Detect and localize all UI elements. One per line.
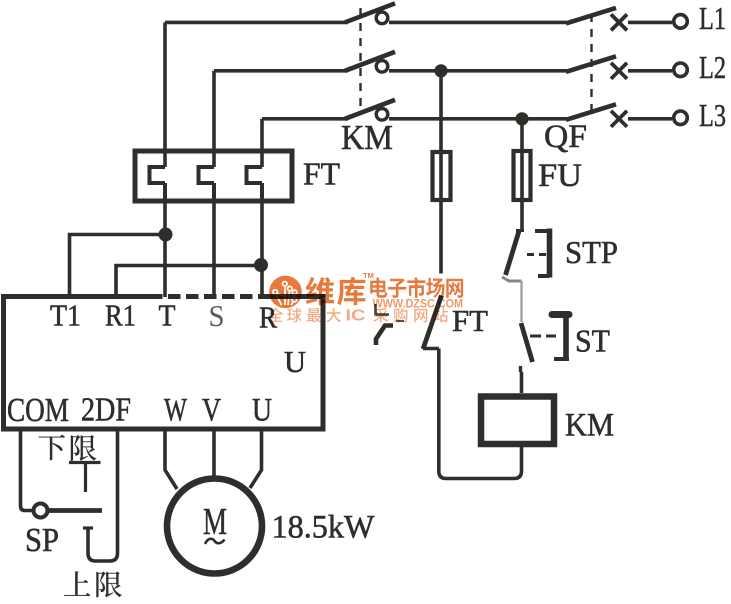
svg-text:S: S	[209, 298, 225, 333]
pushbutton ST cap bracket	[563, 318, 569, 360]
svg-text:R1: R1	[105, 298, 136, 333]
fuse FU 2 body	[514, 151, 531, 200]
svg-text:18.5kW: 18.5kW	[272, 510, 376, 546]
wire L1 horizontal left segment	[165, 21, 348, 25]
thermal relay FT box	[135, 151, 292, 201]
wire L3 junction down to fuse	[520, 119, 524, 151]
contactor KM pole 2 hinge	[376, 61, 388, 73]
svg-text:SP: SP	[25, 522, 59, 559]
svg-text:V: V	[202, 393, 221, 429]
terminal circle L3	[674, 111, 688, 125]
node junction on L3	[515, 112, 528, 125]
inverter U box top edge solid-right	[268, 294, 323, 299]
wire phase3 FT to inverter R	[260, 201, 264, 297]
motor M circle	[167, 479, 262, 574]
contactor KM pole 3 blade	[345, 100, 395, 119]
wire phase2 FT to inverter S	[212, 201, 216, 297]
wire L1 middle segment	[389, 21, 567, 25]
svg-text:FT: FT	[303, 156, 340, 192]
node junction on phase3	[254, 258, 268, 272]
pushbutton ST lower stub	[519, 366, 522, 372]
thermal relay FT heater element	[150, 167, 166, 203]
wire phase1 FT to inverter T	[163, 201, 167, 297]
label upper-limit (Chinese)	[64, 571, 90, 596]
svg-text:FU: FU	[538, 158, 582, 194]
wire L2 right segment	[628, 69, 672, 73]
svg-text:TM: TM	[363, 271, 374, 280]
wire L2 horizontal left segment	[214, 69, 348, 73]
watermark site name chars	[370, 278, 387, 298]
wire L3 horizontal left segment	[262, 117, 348, 121]
contactor KM pole 2 blade	[345, 52, 395, 71]
wire COM down to SP	[21, 429, 33, 511]
svg-text:IC: IC	[346, 308, 366, 325]
breaker QF pole 1 X mark	[611, 14, 627, 30]
svg-text:KM: KM	[565, 408, 614, 444]
wire L3 middle segment	[389, 117, 567, 121]
stray dash	[396, 320, 404, 322]
pushbutton STP top tick	[516, 229, 524, 232]
wire 2DF down-hook to upper-limit contact	[88, 429, 118, 561]
breaker QF linkage dashed line	[590, 14, 592, 112]
contactor KM pole 1 hinge	[376, 12, 388, 24]
svg-text:KM: KM	[341, 118, 393, 157]
contactor KM linkage dashed line	[359, 8, 361, 112]
contactor KM pole 1 blade	[345, 3, 395, 22]
svg-text:WWW.DZSC.COM: WWW.DZSC.COM	[373, 297, 464, 311]
svg-text:T: T	[159, 298, 176, 333]
wire V to motor	[212, 429, 216, 476]
wire W to motor	[165, 429, 177, 489]
terminal circle L1	[674, 15, 688, 29]
thermal relay FT heater element	[199, 167, 215, 203]
node junction on L2	[434, 64, 447, 77]
pushbutton ST blade	[521, 323, 533, 362]
upper-limit contact tick	[83, 526, 93, 529]
fuse FU 1 wire through	[439, 152, 443, 274]
contactor coil KM box	[481, 397, 554, 445]
svg-text:R: R	[259, 300, 277, 335]
lower-limit contact T-bar	[69, 463, 101, 493]
breaker QF pole 1 blade	[566, 8, 616, 24]
watermark logo disc	[269, 276, 302, 309]
svg-text:COM: COM	[7, 392, 69, 429]
label lower-limit (Chinese)	[39, 435, 65, 461]
breaker QF pole 3 X mark	[611, 111, 627, 127]
svg-text:U: U	[284, 344, 306, 379]
watermark logo circuit tree	[276, 287, 294, 305]
breaker QF pole 3 blade	[566, 104, 616, 120]
stray contact mark L-shape	[376, 304, 390, 315]
wire STP to ST (faint)	[520, 281, 522, 322]
svg-text:T1: T1	[50, 298, 81, 333]
thermal relay FT heater element	[247, 167, 263, 203]
svg-text:QF: QF	[544, 119, 587, 155]
wire ST to KM coil	[520, 372, 524, 393]
stray contact mark step	[376, 326, 393, 346]
inverter U box	[4, 294, 324, 429]
switch SP blade	[49, 508, 103, 513]
watermark brand chars	[306, 277, 334, 305]
terminal circle L2	[674, 63, 688, 77]
wire phase2 vertical into FT	[212, 71, 216, 167]
wire L1 right segment	[628, 21, 672, 25]
svg-text:ST: ST	[575, 323, 610, 359]
breaker QF pole 2 blade	[566, 56, 616, 72]
switch SP terminal circle	[34, 504, 48, 518]
pushbutton STP blade	[506, 231, 520, 275]
inverter U box top edge dashed-middle	[150, 294, 268, 299]
wire FT contact to bottom rail	[423, 349, 522, 479]
wire phase3 vertical into FT	[260, 119, 264, 167]
pushbutton STP actuator dashes	[527, 253, 546, 256]
node junction on phase1	[159, 228, 173, 242]
svg-text:L3: L3	[699, 97, 726, 133]
pushbutton STP cap bracket	[547, 229, 553, 278]
pushbutton STP lower bend	[502, 277, 522, 281]
thermal contact FT blade	[423, 296, 442, 350]
breaker QF pole 2 X mark	[611, 63, 627, 79]
fuse FU 1 body	[433, 152, 451, 200]
watermark slogan row	[268, 308, 283, 322]
wire tap to T1	[70, 235, 166, 298]
svg-text:M: M	[203, 501, 227, 543]
svg-text:L1: L1	[699, 0, 726, 36]
wire L2 middle segment	[389, 69, 567, 73]
svg-text:L2: L2	[699, 49, 726, 85]
wire L3 right segment	[628, 117, 672, 121]
svg-text:2DF: 2DF	[81, 392, 131, 429]
wire U to motor	[250, 429, 262, 488]
wire L2 junction down to fuse	[439, 71, 443, 152]
wire phase1 vertical into FT	[163, 22, 167, 167]
fuse FU 2 wire through	[520, 151, 524, 229]
inverter U box top edge solid-left	[4, 294, 151, 299]
contactor KM pole 3 hinge	[376, 109, 388, 121]
svg-text:STP: STP	[565, 234, 618, 270]
svg-text:U: U	[252, 393, 272, 429]
svg-text:W: W	[164, 393, 188, 429]
motor AC tilde	[205, 539, 225, 544]
pushbutton ST actuator dashes	[530, 335, 556, 338]
wire tap to R1	[116, 266, 261, 298]
